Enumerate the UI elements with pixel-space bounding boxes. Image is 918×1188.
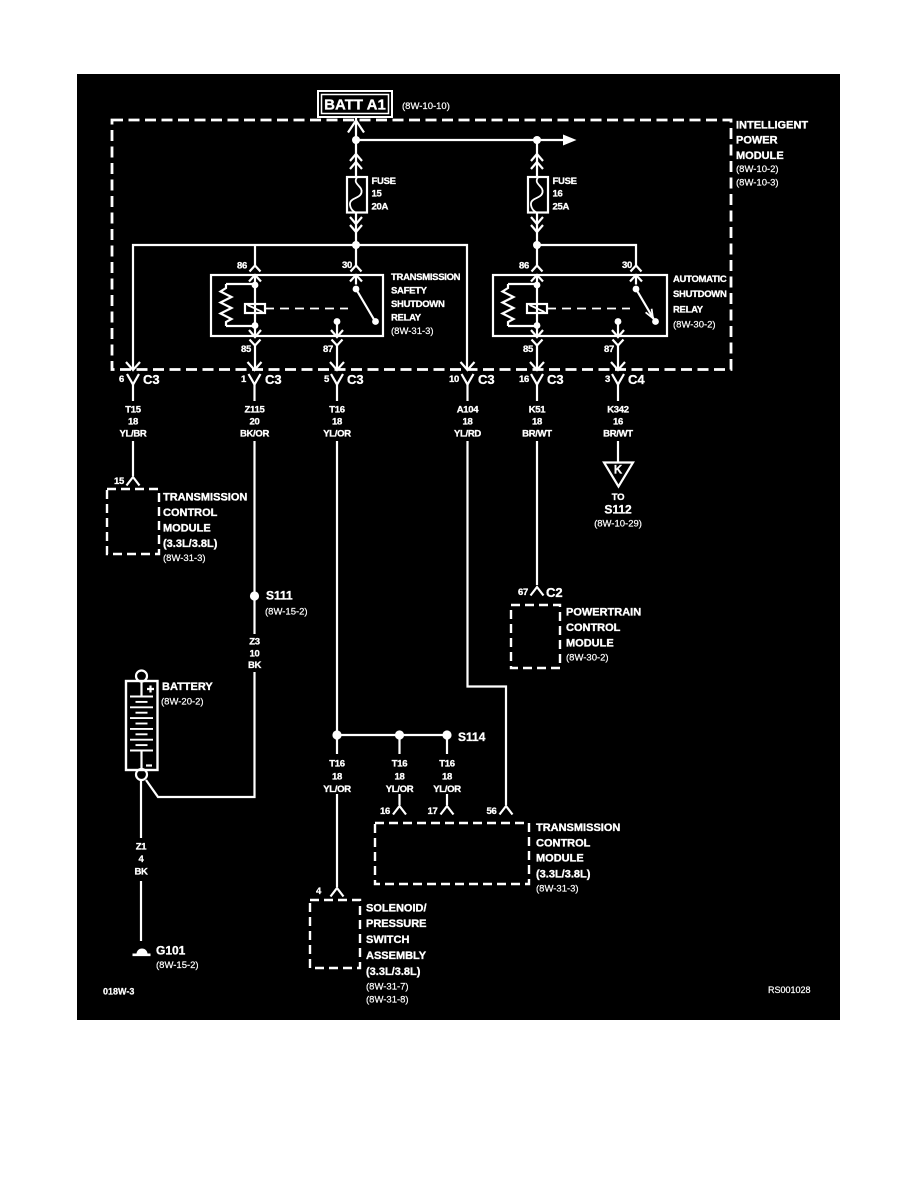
splice S111 <box>250 591 259 600</box>
svg-text:K342: K342 <box>607 405 629 416</box>
svg-text:BATTERY: BATTERY <box>162 681 213 693</box>
svg-text:16: 16 <box>519 374 529 385</box>
node at fuse 16 feed <box>533 136 541 144</box>
svg-text:18: 18 <box>442 772 452 783</box>
bus wire from battery feed to fuses <box>356 139 563 141</box>
relay2 pin 86 connector <box>531 266 543 285</box>
svg-text:A104: A104 <box>457 405 480 416</box>
connector 5 C3 <box>324 362 364 401</box>
relay1 pin 30 connector <box>350 266 362 285</box>
svg-text:(8W-31-8): (8W-31-8) <box>366 995 409 1006</box>
svg-text:INTELLIGENT: INTELLIGENT <box>736 120 808 132</box>
diagram background <box>77 74 840 1020</box>
wire Z1 4 BK label <box>134 842 148 878</box>
connector 16 C3 <box>519 362 564 401</box>
relay1 coil node 85 <box>252 322 259 329</box>
relay2 switch blade <box>636 289 654 320</box>
svg-text:18: 18 <box>128 417 138 428</box>
svg-text:BR/WT: BR/WT <box>603 429 633 440</box>
transmission control module (bottom) label <box>536 822 620 895</box>
wire K342 16 BR/WT label <box>603 405 633 440</box>
svg-text:POWER: POWER <box>736 135 778 147</box>
svg-text:MODULE: MODULE <box>163 523 211 535</box>
svg-text:RELAY: RELAY <box>673 305 704 316</box>
svg-text:YL/BR: YL/BR <box>119 429 146 440</box>
svg-text:3: 3 <box>605 374 610 385</box>
S114 node middle <box>395 730 404 739</box>
wire K51 to PCM <box>536 441 538 585</box>
wire fuse16 to relay2 pin 86 <box>536 245 538 266</box>
svg-text:ASSEMBLY: ASSEMBLY <box>366 950 427 962</box>
svg-text:86: 86 <box>519 261 529 272</box>
svg-text:T16: T16 <box>329 759 344 770</box>
wire branch to relay1 pin 86 <box>254 245 256 266</box>
svg-text:MODULE: MODULE <box>736 150 784 162</box>
relay2 pin 87 stem <box>617 322 619 337</box>
svg-text:S111: S111 <box>266 589 293 603</box>
relay1 switch blade <box>356 289 374 320</box>
svg-text:K: K <box>614 465 623 477</box>
svg-text:18: 18 <box>332 417 342 428</box>
svg-text:(8W-31-3): (8W-31-3) <box>163 553 206 564</box>
ground G101 <box>133 949 151 955</box>
relay1 pin 87 wire to C3 <box>336 357 338 370</box>
relay2 resistor <box>503 284 514 326</box>
svg-text:16: 16 <box>380 806 390 817</box>
svg-text:YL/OR: YL/OR <box>323 784 351 795</box>
connector 3 C4 <box>605 362 645 401</box>
wire to fuse 16 <box>536 140 538 177</box>
wire fuse 15 to relay feed <box>355 213 357 246</box>
relay U2 automatic shutdown relay box <box>493 275 667 336</box>
svg-text:C2: C2 <box>546 585 563 600</box>
connector chevrons above fuse 15 <box>350 154 362 169</box>
connector 6 C3 <box>119 362 160 401</box>
svg-text:TRANSMISSION: TRANSMISSION <box>391 272 461 283</box>
wire S114 to TCM pin 16 <box>398 739 400 805</box>
wire K51 18 BR/WT label <box>522 405 552 440</box>
wire Z3 to battery <box>146 672 255 797</box>
svg-text:C3: C3 <box>143 372 160 387</box>
fuse F15 <box>347 177 367 213</box>
svg-text:(8W-31-3): (8W-31-3) <box>536 884 579 895</box>
svg-text:10: 10 <box>449 374 459 385</box>
svg-text:30: 30 <box>622 260 632 271</box>
connector chevrons below fuse 15 <box>350 217 362 232</box>
svg-text:SHUTDOWN: SHUTDOWN <box>391 299 445 310</box>
wire A104 18 YL/RD label <box>454 405 481 440</box>
svg-text:TO: TO <box>612 492 624 503</box>
relay U1 transmission safety shutdown relay box <box>211 275 383 336</box>
relay1 switch open contact <box>372 318 379 325</box>
svg-text:(3.3L/3.8L): (3.3L/3.8L) <box>163 538 218 550</box>
svg-text:(8W-30-2): (8W-30-2) <box>673 320 716 331</box>
PCM pin 67 chevron <box>531 587 544 596</box>
wire Z115 to S111 <box>253 441 255 598</box>
svg-text:17: 17 <box>428 806 438 817</box>
svg-text:25A: 25A <box>553 202 570 213</box>
relay1 resistor bottom link <box>226 325 255 327</box>
svg-text:PRESSURE: PRESSURE <box>366 918 427 930</box>
relay2 coil node 85 <box>534 322 541 329</box>
wire K342 to S112 <box>617 441 619 462</box>
svg-text:C3: C3 <box>347 372 364 387</box>
power source BATT A1 box <box>318 91 392 117</box>
relay2 switch open contact <box>652 318 659 325</box>
wire T16 from connector 5 to S114 <box>336 441 338 735</box>
intelligent power module label <box>736 120 808 189</box>
svg-text:YL/OR: YL/OR <box>386 784 414 795</box>
fuse F16 <box>528 177 548 213</box>
svg-text:S114: S114 <box>458 730 486 744</box>
fuse 16 label <box>553 176 577 213</box>
solenoid pressure switch assembly dashed box <box>310 900 360 968</box>
node fuse16 to relay2 <box>533 241 541 249</box>
arrow continuation right <box>563 135 577 146</box>
svg-text:87: 87 <box>323 344 333 355</box>
svg-text:67: 67 <box>518 587 528 598</box>
relay2 resistor bottom link <box>508 325 537 327</box>
relay2 name label <box>673 274 727 331</box>
relay1 coil symbol <box>245 304 265 313</box>
svg-text:Z3: Z3 <box>249 637 260 648</box>
svg-text:86: 86 <box>237 261 247 272</box>
connector chevrons above fuse 16 <box>531 154 543 169</box>
relay1 name label <box>391 272 461 337</box>
wire T15 to TCM pin 15 <box>132 441 134 476</box>
battery B1 <box>126 671 158 781</box>
wire Z3 10 BK label <box>248 637 262 672</box>
powertrain control module label <box>566 607 641 664</box>
svg-text:85: 85 <box>523 344 534 355</box>
svg-text:C3: C3 <box>478 372 495 387</box>
svg-text:(8W-10-29): (8W-10-29) <box>594 519 642 530</box>
svg-text:SHUTDOWN: SHUTDOWN <box>673 289 727 300</box>
powertrain control module dashed box <box>511 605 560 668</box>
svg-text:SOLENOID/: SOLENOID/ <box>366 903 427 915</box>
svg-text:T15: T15 <box>125 405 141 416</box>
svg-text:C3: C3 <box>547 372 564 387</box>
S114 node right <box>442 730 451 739</box>
svg-text:TRANSMISSION: TRANSMISSION <box>163 492 247 504</box>
svg-text:RS001028: RS001028 <box>768 985 811 995</box>
svg-text:K51: K51 <box>529 405 547 416</box>
relay2 coil wire <box>536 285 538 326</box>
svg-text:Z115: Z115 <box>245 405 266 416</box>
solenoid pressure switch assembly label <box>366 903 427 1006</box>
svg-text:16: 16 <box>613 417 623 428</box>
splice S111 label <box>265 589 308 618</box>
svg-text:20: 20 <box>250 417 260 428</box>
svg-text:15: 15 <box>372 189 383 200</box>
svg-text:85: 85 <box>241 344 252 355</box>
wire Z1 battery to ground <box>140 780 142 838</box>
svg-text:18: 18 <box>532 417 542 428</box>
relay1 coil wire <box>254 285 256 326</box>
svg-text:(8W-15-2): (8W-15-2) <box>156 960 199 971</box>
relay2 pin 87 wire to C4 <box>617 357 619 370</box>
relay2 pin 85 wire to C3 <box>536 357 538 370</box>
svg-text:(8W-10-3): (8W-10-3) <box>736 178 779 189</box>
intelligent power module dashed border <box>112 120 731 370</box>
battery label <box>161 681 213 708</box>
relay1 pin 87 connector <box>331 330 343 357</box>
svg-text:18: 18 <box>395 772 405 783</box>
svg-text:SWITCH: SWITCH <box>366 934 409 946</box>
wire T15 18 YL/BR label <box>119 405 146 440</box>
svg-text:T16: T16 <box>439 759 454 770</box>
svg-text:MODULE: MODULE <box>566 638 614 650</box>
wire from BATT A1 down <box>355 117 357 140</box>
svg-text:FUSE: FUSE <box>372 176 396 187</box>
relay1 resistor <box>221 284 232 326</box>
TCM pin 17 chevron <box>441 806 454 815</box>
connector 1 C3 <box>241 362 282 401</box>
relay1 pin 30 wire stem <box>355 245 357 266</box>
wire Z1 lower segment <box>140 881 142 941</box>
svg-text:(8W-31-3): (8W-31-3) <box>391 326 434 337</box>
relay2 switch common node <box>633 286 640 293</box>
svg-text:YL/OR: YL/OR <box>323 429 351 440</box>
wire T16 18 YL/OR label b <box>386 759 414 796</box>
svg-text:BATT A1: BATT A1 <box>324 97 386 114</box>
node fuse15 to relay feed <box>352 241 360 249</box>
fuse 15 label <box>372 176 396 213</box>
relay2 coil node 86 <box>534 282 541 289</box>
svg-text:POWERTRAIN: POWERTRAIN <box>566 607 641 619</box>
svg-text:(8W-10-10): (8W-10-10) <box>402 101 450 112</box>
arrow into BATT A1 at border <box>348 121 364 133</box>
svg-text:(3.3L/3.8L): (3.3L/3.8L) <box>536 869 591 881</box>
svg-text:30: 30 <box>342 260 352 271</box>
relay2 pin 85 stem <box>536 326 538 337</box>
off-page connector K to S112 <box>604 463 633 487</box>
wire S111 down <box>253 598 255 634</box>
svg-text:CONTROL: CONTROL <box>163 507 218 519</box>
svg-text:C3: C3 <box>265 372 282 387</box>
relay2 coil symbol <box>527 304 547 313</box>
wire T16 18 YL/OR label <box>323 405 351 440</box>
svg-text:C4: C4 <box>628 372 645 387</box>
wire S114 to solenoid assembly <box>336 739 338 887</box>
relay2 switch blade arrowhead <box>646 309 653 319</box>
svg-text:18: 18 <box>463 417 473 428</box>
svg-text:(8W-20-2): (8W-20-2) <box>161 697 204 708</box>
svg-text:(8W-31-7): (8W-31-7) <box>366 982 409 993</box>
TCM pin 16 chevron <box>393 806 406 815</box>
relay2 resistor top link <box>508 283 537 285</box>
svg-text:87: 87 <box>604 344 614 355</box>
svg-text:YL/OR: YL/OR <box>433 784 461 795</box>
wire T16 18 YL/OR label a <box>323 759 351 796</box>
relay 1 feed bus wire <box>133 245 467 370</box>
svg-text:(8W-10-2): (8W-10-2) <box>736 164 779 175</box>
svg-text:10: 10 <box>250 649 260 660</box>
relay2 pin 85 connector <box>531 330 543 357</box>
svg-text:MODULE: MODULE <box>536 853 584 865</box>
relay2 pin 30 connector <box>630 266 642 285</box>
connector 10 C3 <box>449 362 495 401</box>
svg-text:AUTOMATIC: AUTOMATIC <box>673 274 727 285</box>
S114 node left <box>332 730 341 739</box>
relay1 switch common node <box>353 286 360 293</box>
relay2 pin 87 connector <box>612 330 624 357</box>
relay1 pin 85 connector <box>249 330 261 357</box>
relay1 pin 85 stem <box>254 326 256 337</box>
svg-text:T16: T16 <box>329 405 344 416</box>
svg-text:16: 16 <box>553 189 563 200</box>
ground G101 label <box>156 944 199 972</box>
relay1 pin 86 connector <box>249 266 261 285</box>
svg-text:15: 15 <box>114 476 125 487</box>
svg-text:S112: S112 <box>604 503 632 517</box>
svg-text:(8W-15-2): (8W-15-2) <box>265 607 308 618</box>
relay1 resistor top link <box>226 283 255 285</box>
svg-text:Z1: Z1 <box>136 842 148 853</box>
svg-text:56: 56 <box>487 806 497 817</box>
svg-text:018W-3: 018W-3 <box>103 987 134 997</box>
svg-text:YL/RD: YL/RD <box>454 429 481 440</box>
relay1 armature dashed link <box>265 308 348 310</box>
relay2 armature dashed link <box>547 308 630 310</box>
solenoid pin 4 chevron <box>331 888 344 897</box>
wire S114 to TCM pin 17 <box>446 739 448 805</box>
svg-text:BK: BK <box>248 660 262 671</box>
relay1 coil node 86 <box>252 282 259 289</box>
connector chevrons below fuse 16 <box>531 217 543 232</box>
TCM pin 15 chevron <box>127 477 140 486</box>
relay1 pin 85 wire to C3 <box>254 357 256 370</box>
wire T16 18 YL/OR label c <box>433 759 461 796</box>
wire Z115 20 BK/OR label <box>240 405 270 440</box>
transmission control module (left) label <box>163 492 247 565</box>
svg-text:SAFETY: SAFETY <box>391 286 428 297</box>
svg-text:18: 18 <box>332 772 342 783</box>
svg-text:CONTROL: CONTROL <box>566 622 621 634</box>
svg-text:BK/OR: BK/OR <box>240 429 270 440</box>
svg-text:BR/WT: BR/WT <box>522 429 552 440</box>
relay1 pin 87 stem <box>336 322 338 337</box>
svg-text:T16: T16 <box>392 759 407 770</box>
svg-text:TRANSMISSION: TRANSMISSION <box>536 822 620 834</box>
transmission control module (left) dashed box <box>107 489 159 554</box>
relay2 pin 87 node <box>615 318 622 325</box>
S112 destination label <box>594 492 642 530</box>
svg-text:BK: BK <box>134 867 148 878</box>
svg-text:CONTROL: CONTROL <box>536 838 591 850</box>
svg-text:(8W-30-2): (8W-30-2) <box>566 653 609 664</box>
TCM pin 56 chevron <box>500 806 513 815</box>
node at fuse 15 feed <box>352 136 360 144</box>
wire fuse 16 down <box>536 213 538 246</box>
svg-text:FUSE: FUSE <box>553 176 577 187</box>
transmission control module (bottom) dashed box <box>375 823 529 884</box>
wire A104 to TCM pin 56 <box>468 441 507 805</box>
svg-text:6: 6 <box>119 374 124 385</box>
relay 2 feed wire to pin 30 <box>537 245 636 266</box>
relay1 pin 87 node <box>334 318 341 325</box>
svg-text:RELAY: RELAY <box>391 313 422 324</box>
splice S114 bus <box>337 734 447 736</box>
svg-text:G101: G101 <box>156 944 186 958</box>
svg-text:(3.3L/3.8L): (3.3L/3.8L) <box>366 966 421 978</box>
svg-text:20A: 20A <box>372 202 389 213</box>
wire to fuse 15 <box>355 140 357 177</box>
